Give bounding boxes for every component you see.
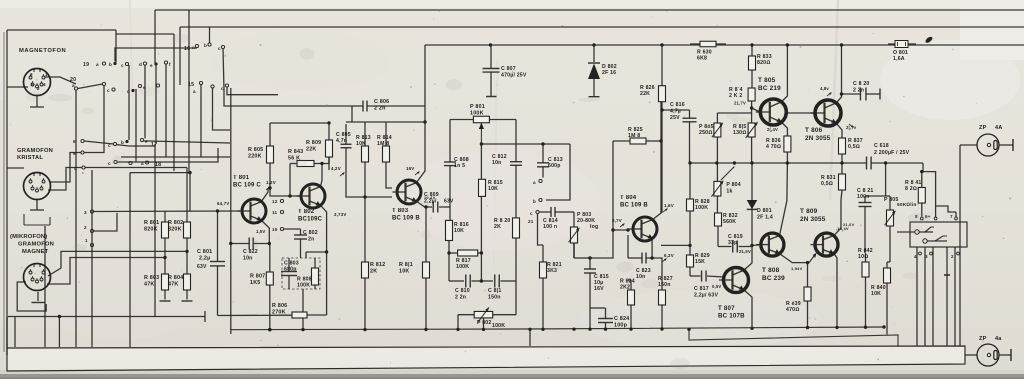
svg-text:2K2: 2K2 <box>620 285 630 291</box>
wire T802 emitter down <box>321 205 327 315</box>
svg-text:6K8: 6K8 <box>697 56 707 62</box>
label P802 <box>477 320 505 329</box>
junction ground A x365 <box>363 328 366 331</box>
arrow T809 base <box>809 253 817 263</box>
resistor R837 <box>839 138 846 163</box>
junction ground A x837 <box>835 326 838 329</box>
svg-text:50KΩlin: 50KΩlin <box>897 202 916 208</box>
svg-text:P 804: P 804 <box>726 182 740 188</box>
wire magnet stem <box>37 292 39 301</box>
svg-text:100K: 100K <box>470 111 484 117</box>
junction ground A x303 <box>301 328 304 331</box>
label 16V <box>406 166 420 175</box>
svg-text:b: b <box>109 62 112 67</box>
label C816 <box>670 102 685 121</box>
label C817 <box>694 286 718 299</box>
wire fb to T804 <box>661 244 690 246</box>
label 21,5V <box>739 249 751 254</box>
svg-text:C 807: C 807 <box>501 66 516 72</box>
svg-text:220K: 220K <box>248 154 262 160</box>
wire T803 emitter <box>416 201 426 262</box>
label switch 15 <box>188 82 196 94</box>
label C812 <box>492 154 507 166</box>
wire T809 emitter <box>834 254 837 328</box>
transistor T806 <box>811 100 842 126</box>
wire magnet feed B <box>47 258 165 285</box>
wire T805 collector <box>781 45 787 102</box>
svg-text:f: f <box>169 62 171 67</box>
wire T806 emitter <box>836 123 842 138</box>
wire gnd drop x15 <box>14 317 16 348</box>
wire kristal box <box>7 167 24 169</box>
wire matrix h162 <box>117 148 218 162</box>
wire matrix v3 <box>144 65 146 138</box>
svg-text:T 807: T 807 <box>718 305 735 312</box>
svg-text:R 802: R 802 <box>168 220 183 226</box>
node C801 base <box>216 209 219 212</box>
node T802 base <box>268 186 271 189</box>
wire R824 top <box>628 279 631 281</box>
wire matrix v189 <box>188 10 190 174</box>
resistor R804 <box>182 274 193 301</box>
label R834 <box>729 87 746 106</box>
svg-text:10n: 10n <box>636 274 646 280</box>
svg-text:100K: 100K <box>695 205 708 211</box>
wire base T805 <box>752 108 760 112</box>
wire socket top 3b <box>936 206 956 212</box>
svg-text:1,54V: 1,54V <box>791 266 803 271</box>
wire T808 collector <box>780 163 788 236</box>
svg-text:1n 5: 1n 5 <box>454 163 465 169</box>
svg-text:470Ω: 470Ω <box>786 307 799 313</box>
resistor R809 <box>326 123 333 170</box>
label C821 <box>857 188 873 200</box>
svg-text:R 805: R 805 <box>248 147 263 153</box>
svg-text:2: 2 <box>37 86 40 91</box>
svg-text:150n: 150n <box>488 295 501 301</box>
svg-text:c: c <box>530 211 533 216</box>
label R812 <box>370 262 385 275</box>
svg-text:2N 3055: 2N 3055 <box>800 216 826 223</box>
wire out jog <box>923 163 936 212</box>
tick left gnd <box>204 311 206 322</box>
svg-text:C 806: C 806 <box>374 99 389 105</box>
wire magnet feed A <box>48 251 187 276</box>
wire socket drop 4 <box>946 247 948 346</box>
svg-text:2 K 2: 2 K 2 <box>729 93 742 99</box>
wire matrix v2 <box>135 89 137 161</box>
capacitor C812 <box>510 120 522 218</box>
svg-text:12: 12 <box>272 199 278 204</box>
node T808 base tap <box>750 244 753 247</box>
svg-text:C 809: C 809 <box>424 192 439 198</box>
wire socket drop 5 <box>954 247 956 346</box>
label R804 <box>168 275 183 288</box>
svg-text:log: log <box>590 224 598 230</box>
svg-text:T 808: T 808 <box>762 267 780 274</box>
svg-text:BC 107B: BC 107B <box>718 313 745 320</box>
label 21,4V <box>767 127 778 132</box>
label T804 <box>620 195 648 209</box>
svg-text:25V: 25V <box>670 115 680 121</box>
capacitor C810 <box>449 275 481 288</box>
wire matrix h167 <box>85 167 187 169</box>
svg-text:100n: 100n <box>857 194 870 200</box>
svg-text:15K: 15K <box>695 259 705 265</box>
capacitor C813 <box>537 144 549 178</box>
wire R839 drop <box>807 263 809 287</box>
svg-text:4,8v: 4,8v <box>820 86 829 91</box>
svg-text:7: 7 <box>950 214 953 219</box>
resistor R816 <box>446 220 453 281</box>
resistor R827 <box>659 264 666 328</box>
wire socket top 3 <box>955 212 957 217</box>
label C801 <box>197 249 212 270</box>
label C815 <box>594 274 609 292</box>
label R808 <box>297 277 312 289</box>
label GRAMOFON KRISTAL <box>17 148 53 161</box>
resistor R801 <box>162 211 169 274</box>
connector GRAMOFON KRISTAL DIN socket <box>24 173 51 200</box>
svg-text:0,5Ω: 0,5Ω <box>848 144 860 150</box>
junction ground A x483.5 <box>482 328 485 331</box>
wire rail2 drop <box>179 27 181 85</box>
wire magnetofon pin3 left <box>7 86 28 88</box>
label C802 <box>303 230 318 243</box>
svg-text:2,2µ: 2,2µ <box>199 256 210 262</box>
svg-text:100K: 100K <box>297 283 310 289</box>
svg-text:21: 21 <box>528 219 534 224</box>
wire T801 emitter down <box>261 220 269 243</box>
resistor R840 <box>884 262 891 335</box>
label switch 17 <box>151 142 157 148</box>
junction ground A x426 <box>424 328 427 331</box>
label T809 <box>800 208 826 223</box>
wire ZP drop <box>959 145 961 346</box>
transistor T808 <box>756 233 784 256</box>
wire T806 base link <box>787 112 816 114</box>
label 1,5V <box>256 229 265 234</box>
node B start <box>687 328 690 331</box>
svg-text:2 200µF / 25V: 2 200µF / 25V <box>874 150 910 156</box>
svg-text:2 2n: 2 2n <box>455 295 466 301</box>
wire T804 emitter down <box>651 238 653 258</box>
wire R842 to A <box>865 326 867 329</box>
resistor R828 <box>687 163 694 255</box>
label R820 <box>494 218 510 230</box>
wire matrix y95 <box>227 87 278 95</box>
resistor R834 <box>748 88 755 108</box>
wire C824 top <box>590 307 606 309</box>
label 15,4V <box>836 226 849 231</box>
wire rail1 drop <box>154 10 156 63</box>
node R843 base <box>288 194 291 197</box>
svg-text:16V: 16V <box>406 166 414 171</box>
svg-text:BC 109 C: BC 109 C <box>233 183 261 189</box>
wire P805 top <box>717 112 751 114</box>
capacitor C817 <box>690 271 724 282</box>
wire matrix 15 v212 <box>213 88 231 130</box>
label C805 <box>336 132 351 144</box>
wire magnetofon pin1 to contact 20 <box>45 77 76 84</box>
svg-text:ZP: ZP <box>979 125 987 131</box>
svg-text:2F 1,4: 2F 1,4 <box>757 215 773 221</box>
wire kristal pin2 right <box>48 168 82 191</box>
wire ZP lead left <box>960 144 977 146</box>
label C824 <box>614 316 629 329</box>
svg-text:2: 2 <box>84 225 87 230</box>
socket pin labels bottom <box>914 252 959 259</box>
wire T803 collector <box>416 45 425 183</box>
label T805 <box>758 77 781 92</box>
svg-text:0,5Ω: 0,5Ω <box>821 181 833 187</box>
terminator ZP <box>1012 139 1014 151</box>
svg-text:R 804: R 804 <box>168 275 183 281</box>
node y163 R837 <box>840 161 843 164</box>
label C810 <box>455 288 470 301</box>
pins MAGNETOFON <box>30 72 48 91</box>
svg-text:22K: 22K <box>306 147 317 153</box>
node y163 P805a <box>715 161 718 164</box>
resistor R812 <box>362 262 369 329</box>
wire matrix b16 up <box>209 27 211 43</box>
wire matrix box feed <box>116 33 174 35</box>
resistor R811 <box>423 262 430 329</box>
wire ground return B <box>689 329 898 346</box>
capacitor C806 <box>352 101 425 112</box>
junction ground A x269.8 <box>268 328 271 331</box>
wire R821 top <box>538 214 544 245</box>
wire P803 to C815 <box>574 257 590 259</box>
potentiometer P805b <box>885 196 896 262</box>
label R809 <box>306 140 321 153</box>
svg-text:1,6A: 1,6A <box>893 56 905 62</box>
svg-text:GRAMOFON: GRAMOFON <box>18 242 54 248</box>
svg-text:C 816: C 816 <box>670 102 685 108</box>
label P805b <box>884 197 916 208</box>
junction ground A x807.5 <box>806 326 809 329</box>
label switch 19 <box>83 62 89 68</box>
label O801 <box>893 50 908 62</box>
socket contact right <box>923 236 947 243</box>
wire R814 to base <box>386 178 392 188</box>
connector MAGNETOFON DIN socket <box>24 69 51 96</box>
socket pin labels top <box>915 214 957 220</box>
contacts col321 <box>84 210 94 247</box>
svg-text:a: a <box>193 89 196 94</box>
label C814 <box>543 218 558 230</box>
node C823 em <box>650 256 653 259</box>
node C820 tap <box>840 92 843 95</box>
wire matrix h87 <box>78 84 102 89</box>
node C807 rail3 <box>489 43 492 46</box>
node R841 tap <box>920 170 923 173</box>
wire emitter node <box>652 258 662 264</box>
svg-text:R 803: R 803 <box>144 275 159 281</box>
svg-text:T 803: T 803 <box>392 208 409 214</box>
resistor R831 <box>839 163 846 200</box>
svg-text:b: b <box>204 43 207 48</box>
svg-text:T 802: T 802 <box>298 209 315 215</box>
svg-text:600p: 600p <box>548 163 561 169</box>
svg-text:c: c <box>108 161 111 166</box>
svg-text:150n: 150n <box>658 282 671 288</box>
label R843 <box>288 149 303 162</box>
svg-text:10: 10 <box>272 227 278 232</box>
capacitor C814 <box>540 207 567 217</box>
label R842 <box>858 248 873 260</box>
wire P803 wiper to T804 base <box>590 230 628 258</box>
label R815 <box>488 180 503 192</box>
label R839 <box>786 301 801 313</box>
wire P803 gnd <box>573 243 575 258</box>
node R825 base <box>611 228 614 231</box>
connector ZP 4A <box>977 134 999 156</box>
wire matrix h141 <box>84 141 113 144</box>
svg-text:2,2µ/ 63V: 2,2µ/ 63V <box>694 293 718 299</box>
terminator ZP4a <box>1010 349 1012 361</box>
wire ZP4a right tick <box>999 354 1011 356</box>
label 6,2V <box>662 253 674 262</box>
wire matrix v190 <box>189 173 191 211</box>
svg-text:100 n: 100 n <box>543 224 557 230</box>
svg-text:2N 3055: 2N 3055 <box>805 135 831 142</box>
resistor R824 <box>628 280 635 328</box>
label MIKROFON GRAMOFON MAGNET <box>10 234 54 255</box>
resistor R814 <box>383 122 390 178</box>
junction ground A x631 <box>629 327 632 330</box>
node R817 L <box>447 251 450 254</box>
svg-text:T 809: T 809 <box>800 208 818 215</box>
resistor R807 <box>266 244 273 330</box>
label C823 <box>636 268 651 280</box>
label D802 <box>602 64 617 76</box>
junction ground A x884 <box>882 325 885 328</box>
svg-text:C 817: C 817 <box>694 286 709 292</box>
contacts col654 <box>73 139 85 171</box>
wire socket drop 3 <box>932 247 934 346</box>
label C809 <box>424 192 454 205</box>
wire R825 left drop <box>612 141 614 230</box>
svg-text:C 618: C 618 <box>874 143 889 149</box>
resistor R829 <box>687 255 694 276</box>
svg-text:2K: 2K <box>370 269 377 275</box>
capacitor C816 <box>683 110 697 163</box>
svg-text:820Ω: 820Ω <box>757 60 770 66</box>
label R817 <box>456 258 471 270</box>
svg-text:C 801: C 801 <box>197 249 212 255</box>
label R816 <box>454 222 469 234</box>
svg-text:2K: 2K <box>494 224 501 230</box>
label R831 <box>821 175 836 187</box>
svg-text:R 807: R 807 <box>250 274 265 280</box>
svg-text:(MIKROFON): (MIKROFON) <box>10 234 47 240</box>
label 0,7V <box>612 218 625 227</box>
svg-text:2F 16: 2F 16 <box>602 70 616 76</box>
junction ground A x605.5 <box>604 328 607 331</box>
resistor R815 <box>479 144 486 281</box>
resistor R836 <box>784 136 791 163</box>
svg-text:2(,4V: 2(,4V <box>767 127 778 132</box>
wire box to ground <box>302 289 304 330</box>
label 3,73V <box>334 212 346 217</box>
svg-text:470µ/ 25V: 470µ/ 25V <box>501 73 527 79</box>
label ZP 4a bottom <box>979 336 1002 342</box>
wire magnet box <box>17 282 46 311</box>
svg-text:22K: 22K <box>640 91 650 97</box>
wire loop x570 <box>546 144 570 200</box>
svg-text:10n: 10n <box>492 160 502 166</box>
resistor R826 <box>659 45 666 213</box>
label C806 <box>374 99 389 112</box>
node R828 R829 <box>688 244 691 247</box>
junction ground A x543 <box>541 328 544 331</box>
wire mid rail y122 <box>346 121 425 123</box>
contact c <box>528 210 539 224</box>
potentiometer P801 <box>450 116 516 144</box>
label R803 <box>144 275 159 288</box>
fuse O801 <box>888 41 916 48</box>
ink mark <box>925 37 932 43</box>
svg-text:R 812: R 812 <box>370 262 385 268</box>
label R841 <box>905 180 921 192</box>
svg-text:0,5V: 0,5V <box>712 284 721 289</box>
svg-text:C 810: C 810 <box>455 288 470 294</box>
svg-text:3: 3 <box>84 210 87 215</box>
junction ground A x752 <box>750 327 753 330</box>
svg-text:C 8|1: C 8|1 <box>488 288 501 294</box>
svg-text:T 805: T 805 <box>758 77 776 84</box>
wire matrix v1 b <box>128 65 130 140</box>
label R805 <box>248 147 263 160</box>
wire contact2 up <box>94 213 117 231</box>
contacts row18 <box>108 160 149 166</box>
contact b <box>533 198 542 204</box>
node emitter T802 <box>325 250 328 253</box>
resistor R630 <box>690 41 726 47</box>
wire socket drop 1 <box>916 247 918 346</box>
node C809 tap <box>424 205 427 208</box>
node R825 C <box>659 139 662 142</box>
svg-text:11: 11 <box>272 210 278 215</box>
svg-text:T 804: T 804 <box>620 195 637 201</box>
label T807 <box>718 305 745 320</box>
svg-text:64,7V: 64,7V <box>217 201 229 206</box>
svg-text:19: 19 <box>83 62 89 68</box>
label R807 <box>250 274 265 287</box>
label R821 <box>547 262 562 274</box>
svg-text:1k: 1k <box>726 189 732 195</box>
capacitor C821 <box>859 196 872 253</box>
resistor R805 <box>267 123 274 188</box>
svg-text:2n: 2n <box>308 237 314 243</box>
wire T805 emitter <box>781 122 787 136</box>
label T808 <box>762 267 785 282</box>
resistor R821 <box>540 245 547 329</box>
wire C802 box top <box>305 252 307 258</box>
label R826 <box>640 85 655 97</box>
wire C814 to P803 <box>566 211 574 213</box>
label T801 <box>233 175 261 189</box>
label 0,5V <box>712 284 721 289</box>
wire left frame bottom <box>6 317 8 349</box>
node R826 C816 <box>660 108 663 111</box>
ground bus bar <box>7 346 965 371</box>
label R832 <box>723 213 738 225</box>
potentiometer P803 <box>569 212 580 258</box>
svg-text:100K: 100K <box>456 264 469 270</box>
svg-text:63V: 63V <box>444 199 454 205</box>
